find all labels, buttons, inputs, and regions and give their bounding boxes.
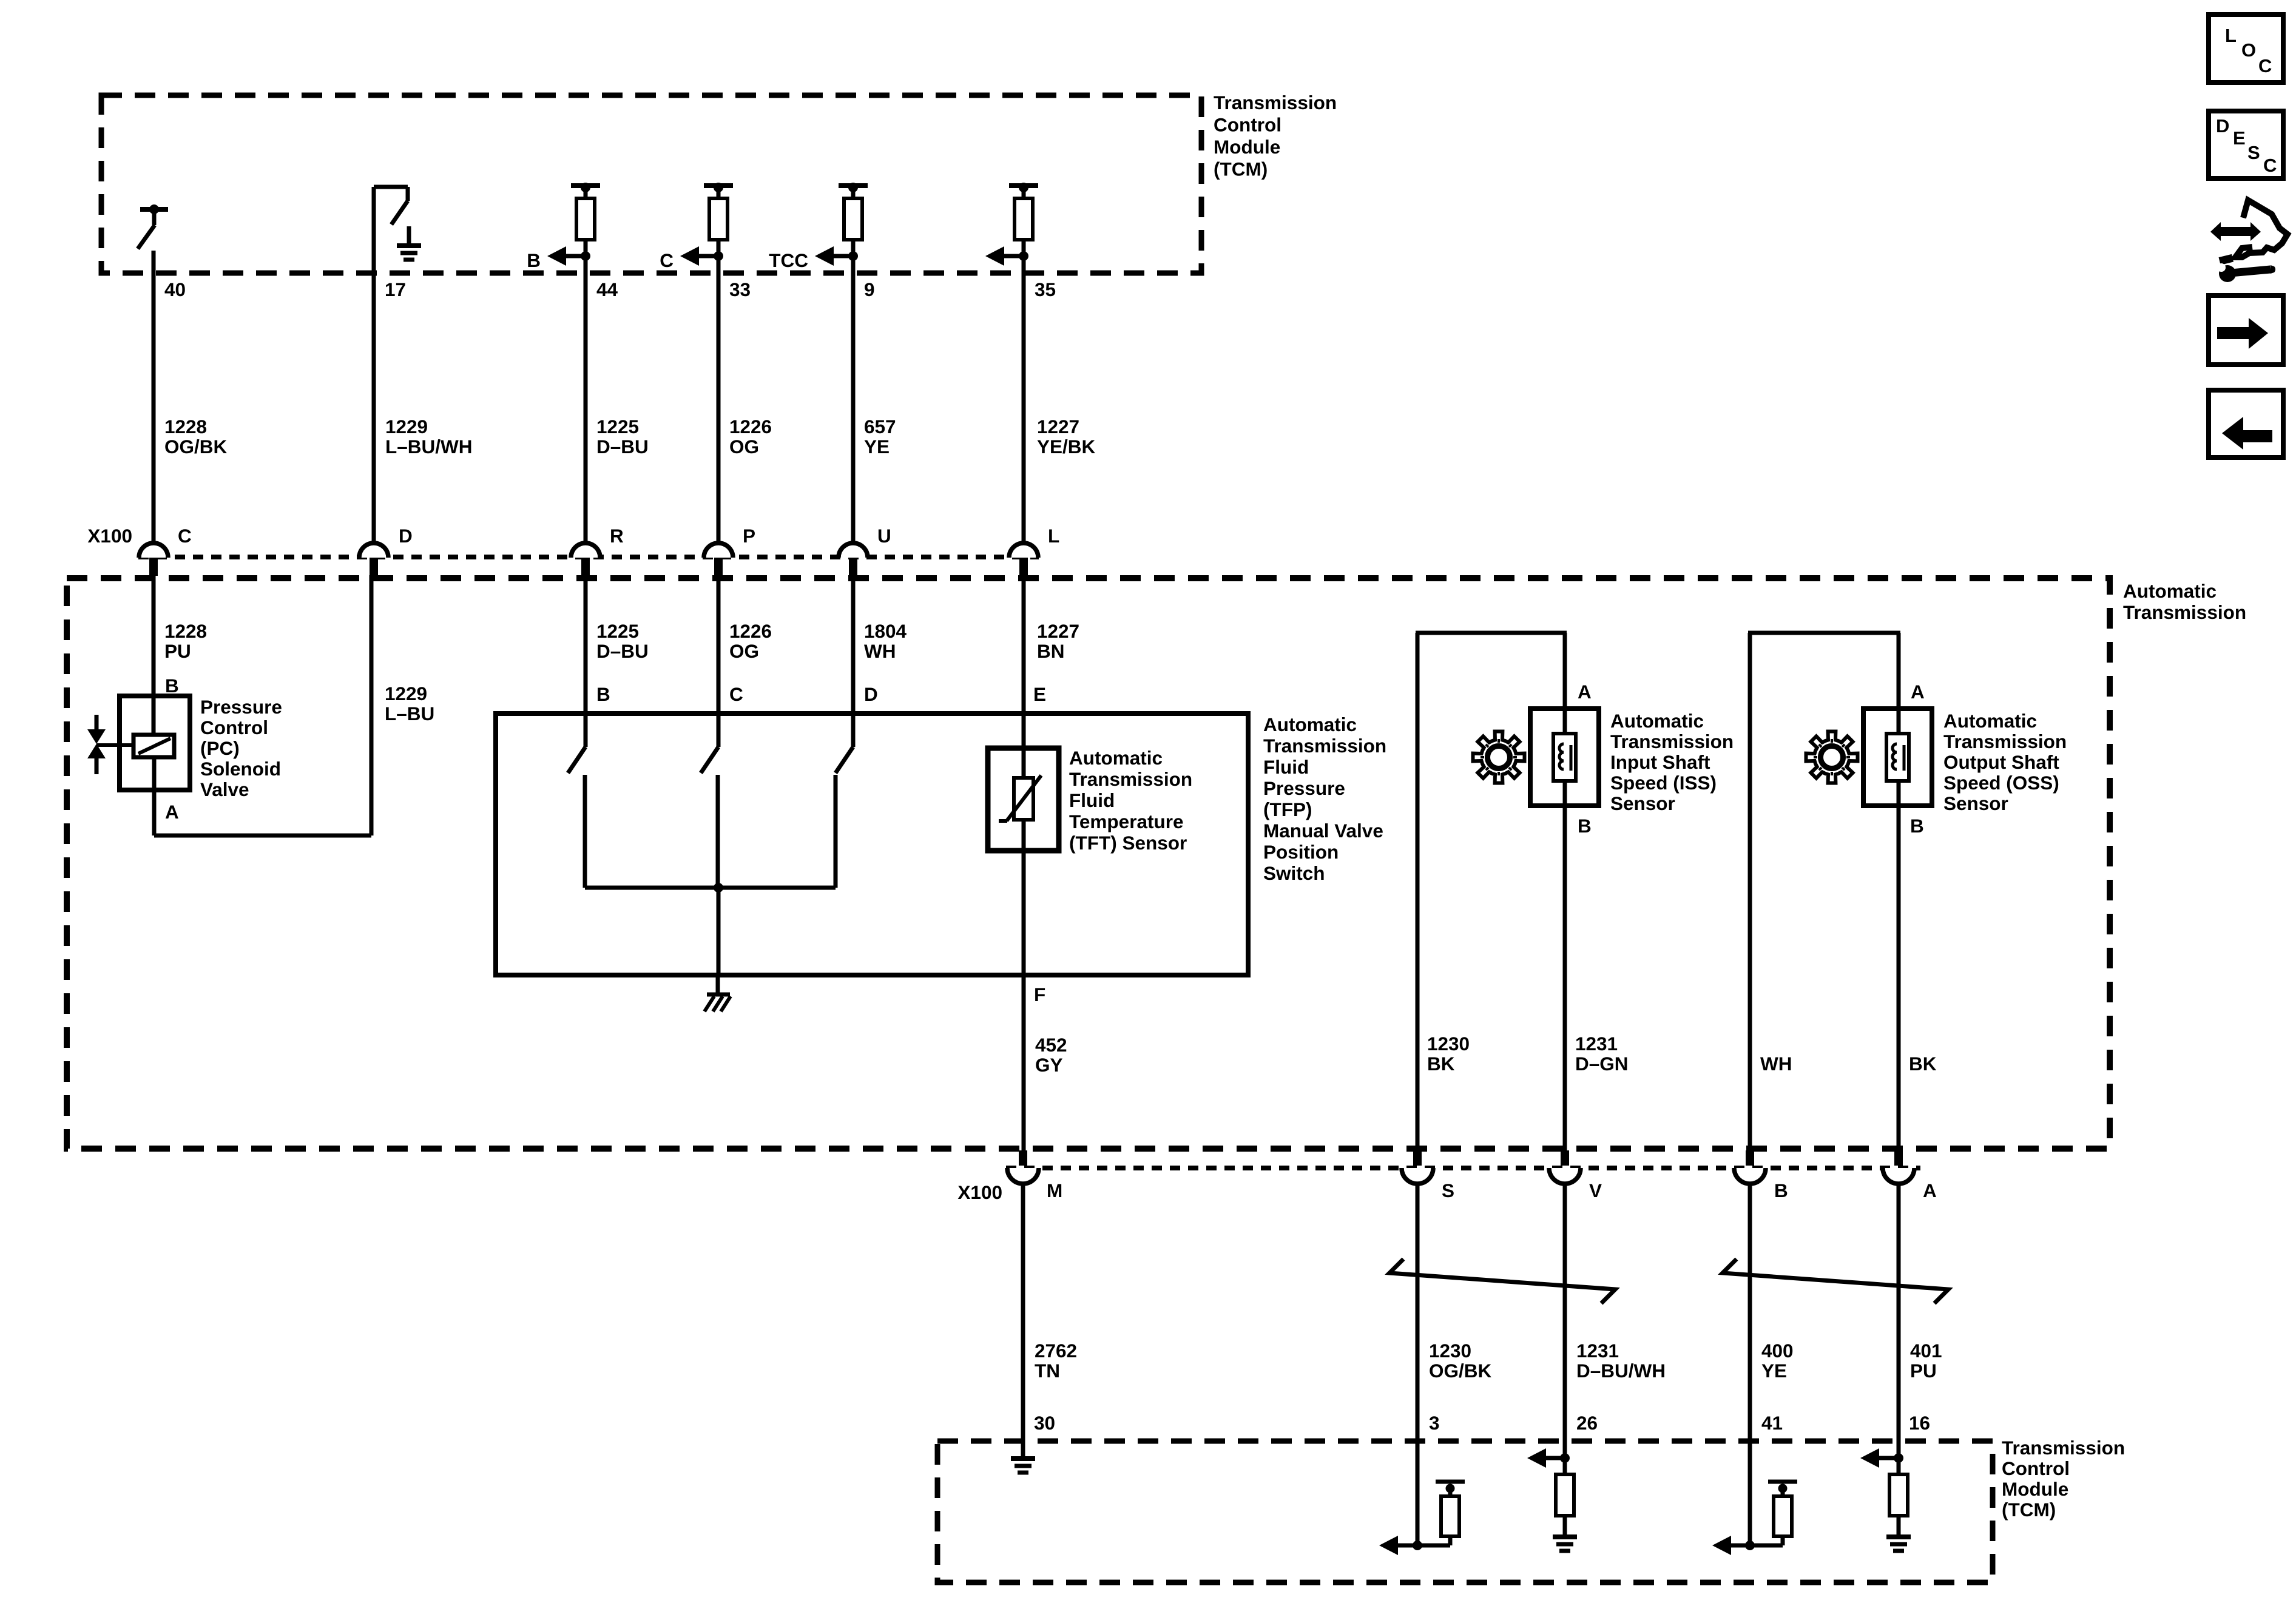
svg-text:A: A (1578, 681, 1592, 703)
svg-text:1231: 1231 (1576, 1340, 1619, 1362)
svg-text:1804: 1804 (864, 620, 907, 642)
svg-text:E: E (1033, 683, 1046, 705)
svg-text:BN: BN (1037, 640, 1065, 662)
svg-text:(PC): (PC) (200, 737, 240, 759)
svg-text:OG: OG (729, 640, 759, 662)
svg-text:1228: 1228 (164, 620, 207, 642)
svg-text:33: 33 (729, 279, 751, 300)
svg-text:V: V (1589, 1180, 1602, 1201)
svg-text:R: R (610, 525, 624, 547)
svg-text:Module: Module (2002, 1478, 2068, 1500)
svg-text:Sensor: Sensor (1943, 792, 2008, 814)
svg-text:Pressure: Pressure (1263, 777, 1345, 799)
svg-text:30: 30 (1034, 1412, 1055, 1434)
svg-text:9: 9 (864, 279, 875, 300)
svg-text:Output Shaft: Output Shaft (1943, 751, 2059, 773)
svg-text:Speed (ISS): Speed (ISS) (1610, 772, 1717, 794)
svg-text:Automatic: Automatic (1069, 747, 1163, 769)
svg-text:Control: Control (2002, 1457, 2070, 1479)
svg-text:Automatic: Automatic (1263, 714, 1357, 735)
svg-text:Fluid: Fluid (1263, 756, 1309, 778)
svg-text:A: A (165, 801, 179, 823)
svg-text:1226: 1226 (729, 416, 772, 437)
svg-text:Manual Valve: Manual Valve (1263, 820, 1383, 842)
svg-text:2762: 2762 (1035, 1340, 1077, 1362)
svg-text:1229: 1229 (385, 683, 427, 704)
svg-text:D: D (864, 683, 878, 705)
svg-text:YE: YE (864, 436, 890, 457)
svg-text:Transmission: Transmission (1263, 735, 1386, 757)
svg-text:C: C (2263, 155, 2277, 176)
svg-text:X100: X100 (87, 525, 132, 547)
svg-text:TN: TN (1035, 1360, 1060, 1382)
svg-text:D–GN: D–GN (1575, 1053, 1629, 1075)
svg-text:452: 452 (1035, 1034, 1067, 1056)
svg-text:Automatic: Automatic (1943, 710, 2037, 732)
svg-text:O: O (2241, 39, 2256, 61)
svg-text:(TFP): (TFP) (1263, 798, 1312, 820)
svg-text:657: 657 (864, 416, 896, 437)
svg-text:401: 401 (1910, 1340, 1942, 1362)
svg-text:Temperature: Temperature (1069, 811, 1183, 832)
svg-text:(TCM): (TCM) (1214, 158, 1268, 180)
svg-text:OG/BK: OG/BK (1429, 1360, 1492, 1382)
svg-text:1226: 1226 (729, 620, 772, 642)
svg-text:YE: YE (1761, 1360, 1787, 1382)
svg-text:1231: 1231 (1575, 1033, 1618, 1055)
svg-text:B: B (165, 675, 179, 697)
svg-text:1230: 1230 (1429, 1340, 1471, 1362)
svg-text:Fluid: Fluid (1069, 789, 1115, 811)
svg-text:B: B (596, 683, 610, 705)
svg-text:(TCM): (TCM) (2002, 1499, 2056, 1521)
svg-text:L: L (2225, 25, 2237, 46)
svg-text:A: A (1923, 1180, 1937, 1201)
svg-text:3: 3 (1429, 1412, 1440, 1434)
svg-text:C: C (178, 525, 192, 547)
svg-text:Pressure: Pressure (200, 696, 282, 718)
svg-text:PU: PU (164, 640, 191, 662)
svg-text:(TFT) Sensor: (TFT) Sensor (1069, 832, 1187, 854)
svg-text:1227: 1227 (1037, 416, 1079, 437)
svg-text:Control: Control (1214, 114, 1281, 136)
svg-text:D–BU: D–BU (596, 640, 649, 662)
svg-text:B: B (1578, 815, 1592, 837)
svg-text:16: 16 (1909, 1412, 1930, 1434)
svg-text:Switch: Switch (1263, 862, 1325, 884)
svg-text:OG: OG (729, 436, 759, 457)
svg-text:Automatic: Automatic (1610, 710, 1704, 732)
svg-text:S: S (2247, 142, 2260, 163)
svg-text:Speed (OSS): Speed (OSS) (1943, 772, 2059, 794)
svg-text:YE/BK: YE/BK (1037, 436, 1096, 457)
svg-text:Transmission: Transmission (1610, 731, 1734, 752)
svg-text:B: B (527, 249, 541, 271)
svg-text:D: D (399, 525, 413, 547)
svg-text:Position: Position (1263, 841, 1339, 863)
svg-text:BK: BK (1909, 1053, 1937, 1075)
svg-text:26: 26 (1576, 1412, 1598, 1434)
svg-text:C: C (729, 683, 743, 705)
svg-text:35: 35 (1035, 279, 1056, 300)
svg-text:1225: 1225 (596, 620, 639, 642)
svg-text:Input Shaft: Input Shaft (1610, 751, 1710, 773)
svg-text:L: L (1048, 525, 1059, 547)
svg-text:Module: Module (1214, 136, 1280, 158)
svg-text:OG/BK: OG/BK (164, 436, 228, 457)
svg-text:U: U (877, 525, 891, 547)
svg-text:BK: BK (1427, 1053, 1455, 1075)
svg-text:Solenoid: Solenoid (200, 758, 281, 780)
svg-text:Transmission: Transmission (1214, 92, 1337, 113)
svg-text:D: D (2216, 115, 2229, 137)
svg-text:C: C (660, 249, 674, 271)
svg-text:PU: PU (1910, 1360, 1937, 1382)
svg-text:S: S (1442, 1180, 1454, 1201)
svg-text:1230: 1230 (1427, 1033, 1470, 1055)
svg-text:40: 40 (164, 279, 186, 300)
svg-text:Sensor: Sensor (1610, 792, 1675, 814)
svg-text:L–BU/WH: L–BU/WH (385, 436, 473, 457)
svg-text:L–BU: L–BU (385, 703, 434, 724)
svg-text:17: 17 (385, 279, 406, 300)
svg-text:A: A (1911, 681, 1925, 703)
svg-text:WH: WH (1760, 1053, 1792, 1075)
svg-text:B: B (1774, 1180, 1788, 1201)
svg-text:WH: WH (864, 640, 896, 662)
svg-text:400: 400 (1761, 1340, 1794, 1362)
svg-text:E: E (2233, 127, 2246, 149)
svg-text:C: C (2258, 55, 2272, 76)
svg-text:Control: Control (200, 717, 268, 738)
svg-text:Valve: Valve (200, 778, 249, 800)
svg-text:TCC: TCC (769, 249, 808, 271)
svg-text:1225: 1225 (596, 416, 639, 437)
svg-text:P: P (743, 525, 755, 547)
svg-text:44: 44 (596, 279, 618, 300)
svg-text:Transmission: Transmission (1943, 731, 2067, 752)
svg-text:B: B (1910, 815, 1924, 837)
svg-text:Transmission: Transmission (2002, 1437, 2125, 1459)
svg-text:GY: GY (1035, 1054, 1063, 1076)
svg-text:1228: 1228 (164, 416, 207, 437)
svg-text:Transmission: Transmission (1069, 768, 1192, 790)
svg-text:X100: X100 (957, 1181, 1002, 1203)
svg-text:M: M (1047, 1180, 1062, 1201)
svg-text:1229: 1229 (385, 416, 428, 437)
svg-text:F: F (1034, 984, 1045, 1005)
svg-text:D–BU/WH: D–BU/WH (1576, 1360, 1666, 1382)
svg-text:41: 41 (1761, 1412, 1783, 1434)
svg-text:Automatic: Automatic (2123, 580, 2217, 602)
svg-text:Transmission: Transmission (2123, 601, 2246, 623)
svg-text:1227: 1227 (1037, 620, 1079, 642)
svg-text:D–BU: D–BU (596, 436, 649, 457)
